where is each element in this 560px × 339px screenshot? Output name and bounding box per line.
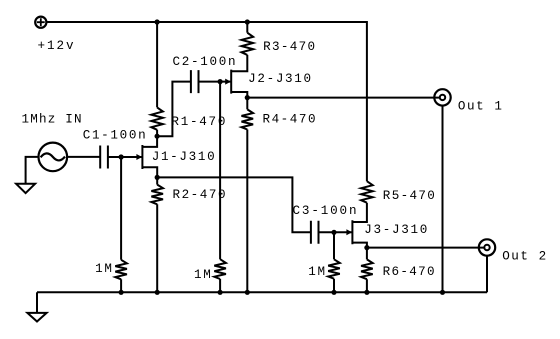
svg-text:C2-100n: C2-100n — [173, 55, 236, 69]
wire J1 source to C3 — [157, 177, 311, 232]
capacitor C3 100n — [311, 221, 319, 244]
node rail junction R4 — [245, 290, 250, 295]
wire R1 bottom to J1 drain — [142, 130, 157, 147]
wire C2 left branch — [157, 82, 191, 137]
node J1 drain junction — [155, 134, 160, 139]
node J1 gate junction — [119, 154, 124, 159]
wire ground bottom rail — [37, 291, 487, 293]
wire 1M gate bias J1 — [120, 157, 122, 292]
svg-text:1M: 1M — [308, 265, 325, 279]
wire Out 1 ground return — [442, 106, 444, 292]
arrow J3 gate — [346, 229, 352, 235]
wire source left to ground — [26, 157, 39, 184]
node rail junction R6 — [364, 290, 369, 295]
node J2 gate junction — [218, 79, 223, 84]
transistor J1 J310 — [142, 145, 157, 177]
node rail junction 1M J1 bias — [119, 290, 124, 295]
wire C1 to J1 gate — [108, 156, 142, 158]
node J3 gate junction — [331, 230, 336, 235]
svg-text:1M: 1M — [194, 268, 211, 282]
node J2 source junction — [245, 95, 250, 100]
svg-text:1M: 1M — [95, 262, 112, 276]
power +12v symbol V1 — [35, 17, 46, 28]
connector Out 2 — [479, 239, 495, 255]
arrow J1 gate — [136, 154, 142, 160]
wire R2 to ground rail — [156, 177, 158, 292]
wire C2 to J2 gate — [199, 81, 232, 83]
svg-text:J3-J310: J3-J310 — [364, 223, 427, 237]
svg-text:C1-100n: C1-100n — [83, 129, 146, 143]
wire Out 2 down — [486, 256, 488, 292]
transistor J2 J310 — [231, 55, 247, 98]
wire R5 to J3 drain — [352, 203, 367, 222]
resistor R4 470 — [242, 109, 254, 129]
transistor J3 J310 — [352, 220, 367, 247]
ground main — [27, 313, 46, 322]
svg-text:J1-J310: J1-J310 — [152, 150, 215, 164]
svg-text:C3-100n: C3-100n — [293, 204, 357, 218]
wire ground stub — [36, 292, 38, 313]
svg-text:Out 1: Out 1 — [458, 99, 502, 113]
wire C3 to J3 gate — [319, 231, 353, 233]
resistor R3 470 — [242, 33, 254, 55]
node J1 source junction — [155, 175, 160, 180]
arrow J2 gate — [225, 79, 231, 85]
ground source — [16, 184, 35, 193]
node rail junction 1M J2 bias — [218, 290, 223, 295]
wire J2 source to Out 1 — [247, 97, 439, 99]
wire source to C1 — [67, 156, 100, 158]
node rail junction R2 — [155, 290, 160, 295]
resistor R5 470 — [361, 181, 373, 203]
node rail junction Out 1 return — [440, 290, 445, 295]
wire R1 top — [156, 22, 158, 107]
node R1 top rail junction — [155, 19, 160, 24]
wire J3 source to Out 2 — [367, 247, 484, 249]
source sine generator — [39, 143, 68, 172]
node rail junction 1M J3 bias — [331, 290, 336, 295]
svg-text:1Mhz IN: 1Mhz IN — [22, 112, 82, 126]
wire 1M gate bias J2 — [219, 82, 221, 293]
wire 1M gate bias J3 — [333, 232, 335, 292]
svg-text:J2-J310: J2-J310 — [248, 72, 311, 86]
wire +12v top rail — [47, 22, 367, 181]
resistor R2 470 — [151, 185, 163, 205]
resistor 1M J1 bias — [115, 260, 127, 280]
connector Out 1 — [434, 89, 450, 105]
resistor 1M J2 bias — [214, 259, 226, 279]
resistor 1M J3 bias — [328, 259, 340, 278]
node J3 source junction — [364, 245, 369, 250]
svg-text:Out 2: Out 2 — [502, 249, 546, 263]
svg-text:+12v: +12v — [38, 39, 74, 53]
node R3 top rail junction — [245, 19, 250, 24]
wire R4 to ground rail — [246, 98, 248, 293]
capacitor C1 100n — [100, 146, 108, 169]
wire R3 top — [246, 22, 248, 33]
resistor R6 470 — [361, 259, 373, 279]
capacitor C2 100n — [191, 70, 199, 93]
wire R6 to ground rail — [366, 248, 368, 293]
resistor R1 470 — [151, 107, 163, 129]
